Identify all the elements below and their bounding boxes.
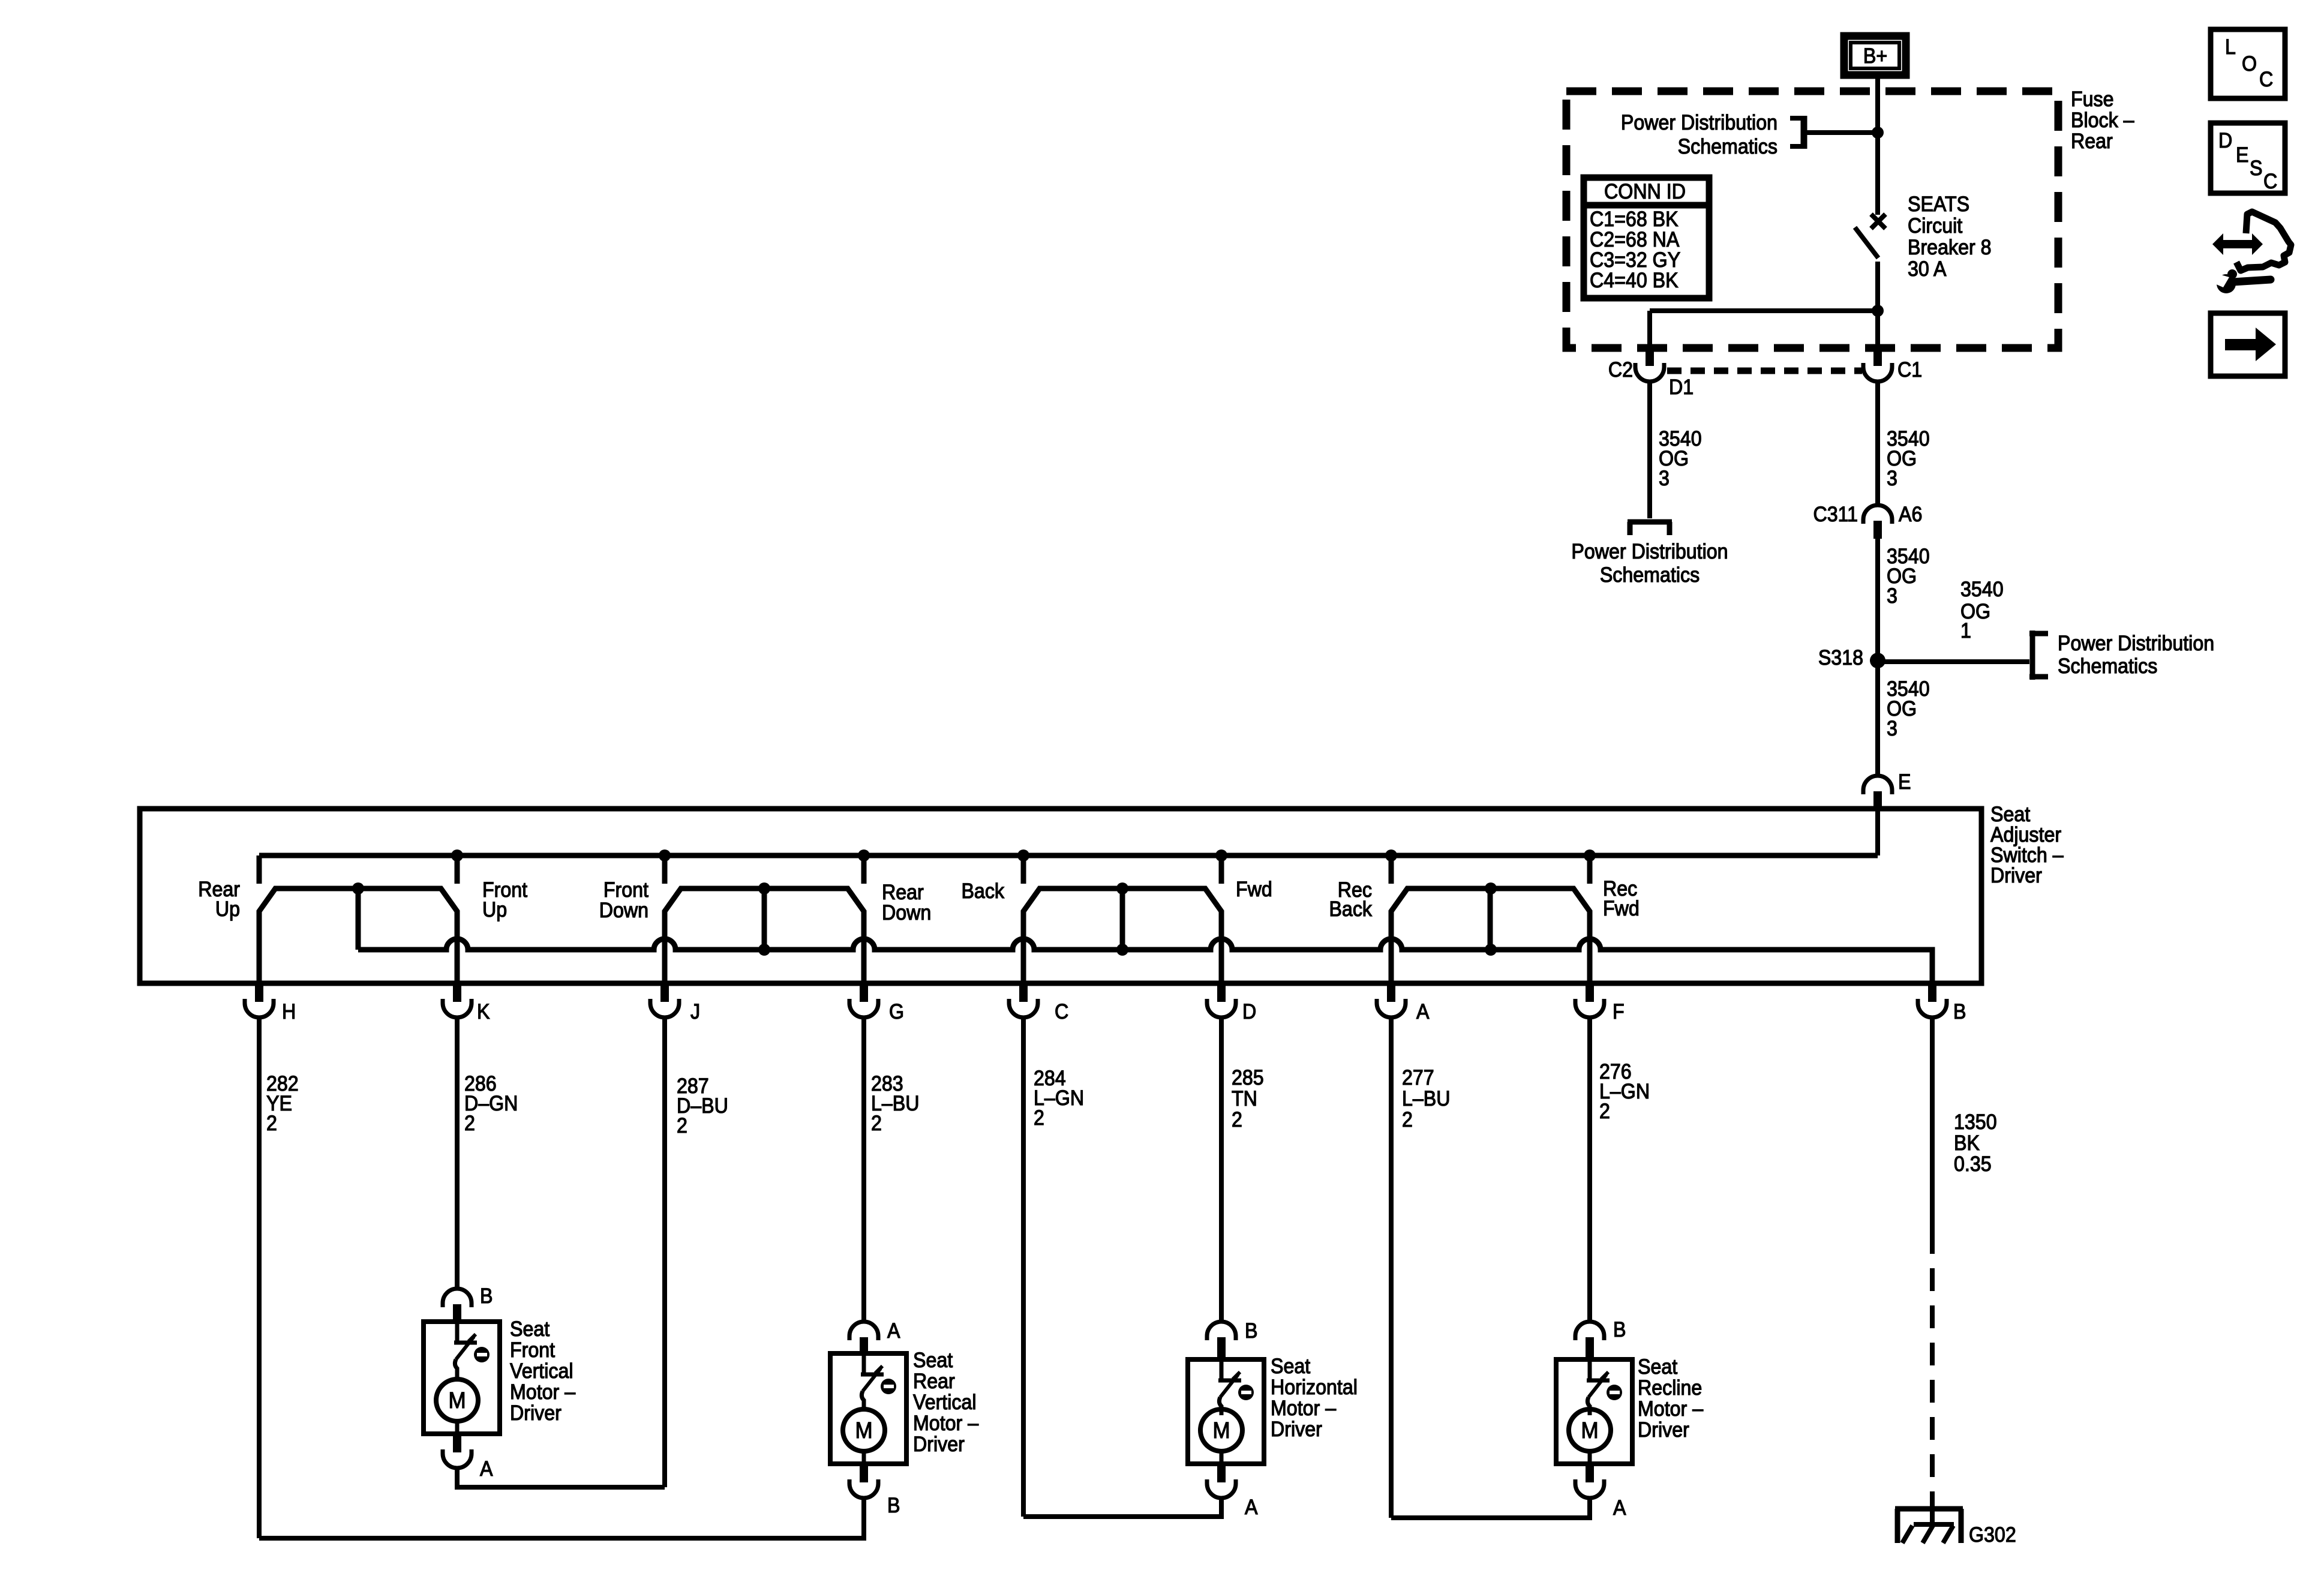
svg-text:2: 2 bbox=[1599, 1100, 1610, 1124]
svg-text:D: D bbox=[1242, 1001, 1256, 1024]
svg-text:Recline: Recline bbox=[1638, 1377, 1702, 1400]
switch S1 Seat Adjuster Switch - Driver enclosure bbox=[140, 809, 1981, 983]
common return line to pin B with wire hops bbox=[358, 939, 1932, 983]
label C1 bbox=[1897, 359, 1922, 382]
svg-text:1350: 1350 bbox=[1954, 1111, 1997, 1134]
label Rec Back bbox=[1329, 879, 1372, 921]
label pin A bbox=[1416, 1001, 1430, 1024]
svg-text:M: M bbox=[1581, 1418, 1598, 1443]
label Seat Recline Motor - Driver bbox=[1638, 1356, 1703, 1442]
svg-text:E: E bbox=[1898, 771, 1911, 794]
svg-text:3: 3 bbox=[1887, 467, 1897, 491]
junction node tap T2 top bbox=[758, 882, 770, 894]
svg-text:Power Distribution: Power Distribution bbox=[1571, 541, 1728, 564]
motor M2 connector pin B bbox=[849, 1464, 878, 1498]
connector C311 pin A6 bbox=[1863, 505, 1892, 539]
rocker contact front vertical (Rear Up / Front Up) bbox=[259, 888, 457, 983]
svg-text:Motor –: Motor – bbox=[1638, 1398, 1703, 1421]
svg-text:C1=68 BK: C1=68 BK bbox=[1590, 208, 1679, 232]
svg-text:G302: G302 bbox=[1969, 1524, 2016, 1547]
label pin K bbox=[477, 1001, 490, 1024]
svg-text:2: 2 bbox=[677, 1115, 687, 1138]
label Seat Adjuster Switch - Driver bbox=[1990, 803, 2064, 888]
svg-text:C4=40 BK: C4=40 BK bbox=[1590, 269, 1679, 293]
label pin C bbox=[1055, 1001, 1068, 1024]
svg-text:C2=68 NA: C2=68 NA bbox=[1590, 229, 1680, 252]
reference Power Distribution Schematics (right of S318) bbox=[2058, 632, 2214, 679]
motor M1 Seat Front Vertical Motor - Driver connector pin B bbox=[443, 1289, 472, 1324]
label S318 bbox=[1818, 647, 1863, 670]
circuit breaker contact and blade bbox=[1855, 214, 1885, 258]
wire J 287 D-BU 2 bbox=[662, 1017, 667, 1487]
svg-text:Back: Back bbox=[1329, 898, 1372, 921]
wire G 283 L-BU 2 bbox=[861, 1017, 866, 1322]
label pin H bbox=[282, 1001, 296, 1024]
rocker contact horizontal (Back / Fwd) bbox=[1023, 888, 1221, 983]
svg-text:Power Distribution: Power Distribution bbox=[1621, 112, 1777, 135]
label Seat Horizontal Motor - Driver bbox=[1271, 1355, 1358, 1442]
svg-text:Motor –: Motor – bbox=[913, 1412, 978, 1436]
wire D 285 TN 2 bbox=[1219, 1017, 1224, 1322]
contact stub Front Down (J) bbox=[662, 855, 668, 884]
wire A 277 L-BU 2 bbox=[1389, 1017, 1394, 1518]
svg-text:1: 1 bbox=[1960, 620, 1971, 643]
svg-text:Vertical: Vertical bbox=[510, 1360, 574, 1383]
wire S318 down to E 3540 OG 3 bbox=[1875, 661, 1880, 775]
wire C 284 L-GN 2 bbox=[1021, 1017, 1026, 1517]
icon forward arrow box bbox=[2211, 313, 2285, 376]
svg-text:D1: D1 bbox=[1669, 376, 1694, 400]
svg-text:C2: C2 bbox=[1608, 359, 1633, 382]
wire S318 branch right 3540 OG 1 bbox=[1878, 659, 2029, 664]
svg-text:Schematics: Schematics bbox=[2058, 655, 2157, 679]
svg-text:J: J bbox=[690, 1001, 700, 1024]
contact stub Rec Fwd (F) bbox=[1587, 855, 1593, 884]
wire label 284 L-GN 2 bbox=[1034, 1067, 1084, 1130]
svg-text:S: S bbox=[2250, 157, 2262, 181]
svg-text:3: 3 bbox=[1659, 467, 1670, 491]
junction node on bus at A bbox=[1385, 849, 1397, 861]
svg-text:TN: TN bbox=[1232, 1088, 1257, 1111]
svg-text:A6: A6 bbox=[1899, 503, 1922, 527]
wire label 1350 BK 0.35 bbox=[1954, 1111, 1997, 1176]
svg-text:F: F bbox=[1613, 1001, 1625, 1024]
junction node on bus at J bbox=[659, 849, 671, 861]
svg-text:Driver: Driver bbox=[913, 1433, 965, 1457]
svg-text:H: H bbox=[282, 1001, 296, 1024]
svg-text:Circuit: Circuit bbox=[1908, 215, 1963, 238]
svg-text:Down: Down bbox=[599, 899, 648, 923]
junction node on bus at G bbox=[858, 849, 870, 861]
motor M2 Seat Rear Vertical Motor - Driver connector pin A bbox=[849, 1322, 878, 1356]
label Seat Front Vertical Motor - Driver bbox=[510, 1318, 575, 1425]
svg-text:B+: B+ bbox=[1863, 45, 1887, 68]
label Front Up bbox=[482, 879, 528, 922]
wire E into feed bus bbox=[1875, 811, 1880, 855]
svg-text:2: 2 bbox=[1232, 1109, 1242, 1132]
junction node on bus at C bbox=[1017, 849, 1029, 861]
svg-text:C1: C1 bbox=[1897, 359, 1922, 382]
svg-text:Driver: Driver bbox=[1271, 1418, 1322, 1442]
wire M2 pin B to H bbox=[259, 1497, 864, 1538]
off-page connector to Power Distribution Schematics (bottom) bbox=[1628, 522, 1672, 535]
svg-text:BK: BK bbox=[1954, 1132, 1980, 1155]
rocker contact recline (Rec Back / Rec Fwd) bbox=[1391, 888, 1590, 983]
junction node tap T3 top bbox=[1116, 882, 1128, 894]
wire label 3540 OG 1 bbox=[1960, 578, 2004, 643]
wire bracket to B+ feed bbox=[1807, 130, 1878, 135]
label C2 bbox=[1608, 359, 1633, 382]
svg-text:Fwd: Fwd bbox=[1236, 878, 1272, 902]
svg-text:2: 2 bbox=[266, 1112, 277, 1136]
svg-text:Rear: Rear bbox=[2071, 130, 2113, 154]
svg-text:C311: C311 bbox=[1813, 503, 1858, 527]
label pin B of M4 bbox=[1613, 1319, 1626, 1342]
wire label 276 L-GN 2 bbox=[1599, 1061, 1650, 1124]
svg-text:Seat: Seat bbox=[1638, 1356, 1678, 1379]
junction node tap T1 bbox=[352, 882, 364, 894]
connector pin H of seat adjuster switch bbox=[245, 984, 274, 1017]
wire F 276 L-GN 2 bbox=[1587, 1017, 1592, 1322]
svg-text:Motor –: Motor – bbox=[1271, 1397, 1336, 1421]
wire C311 to S318 bbox=[1875, 539, 1880, 661]
svg-text:B: B bbox=[887, 1494, 900, 1518]
label pin J bbox=[690, 1001, 700, 1024]
svg-text:2: 2 bbox=[1402, 1109, 1413, 1132]
svg-text:2: 2 bbox=[464, 1112, 475, 1136]
motor M2 Seat Rear Vertical Motor - Driver bbox=[830, 1353, 906, 1464]
junction node on bus at K bbox=[451, 849, 463, 861]
svg-text:B: B bbox=[1613, 1319, 1626, 1342]
label pin D bbox=[1242, 1001, 1256, 1024]
bracket to Power Distribution Schematics (right) bbox=[2029, 631, 2048, 680]
connector pin B of seat adjuster switch bbox=[1918, 984, 1947, 1017]
junction node tap T4 top bbox=[1485, 882, 1497, 894]
svg-text:A: A bbox=[480, 1458, 493, 1481]
wire label 286 D-GN 2 bbox=[464, 1073, 518, 1136]
svg-text:B: B bbox=[1245, 1320, 1257, 1343]
junction node on B+ feed bbox=[1872, 127, 1884, 139]
wire H 282 YE 2 bbox=[257, 1017, 262, 1538]
wire label 277 L-BU 2 bbox=[1402, 1067, 1451, 1132]
wire M3 pin A to C bbox=[1023, 1497, 1221, 1517]
label Fwd bbox=[1236, 878, 1272, 902]
svg-text:SEATS: SEATS bbox=[1908, 193, 1969, 217]
connector pin J of seat adjuster switch bbox=[650, 984, 679, 1017]
CONN ID table bbox=[1584, 178, 1709, 298]
fuse block - rear dashed enclosure bbox=[1566, 91, 2058, 348]
label Back bbox=[961, 880, 1004, 903]
svg-text:Motor –: Motor – bbox=[510, 1381, 575, 1404]
svg-text:S318: S318 bbox=[1818, 647, 1863, 670]
label pin A of M1 bbox=[480, 1458, 493, 1481]
reference Power Distribution Schematics (below C2) bbox=[1571, 541, 1728, 587]
svg-text:Adjuster: Adjuster bbox=[1990, 824, 2061, 847]
junction node below breaker bbox=[1872, 305, 1884, 317]
label pin A of M4 bbox=[1613, 1497, 1626, 1520]
wire label 3540 OG 3 (C2 drop) bbox=[1659, 428, 1702, 491]
label pin B bbox=[1953, 1001, 1966, 1024]
svg-text:Down: Down bbox=[882, 902, 931, 925]
contact stub Rear Up (H) bbox=[257, 855, 262, 884]
svg-text:C: C bbox=[2259, 68, 2273, 92]
motor M4 connector pin A bbox=[1575, 1464, 1604, 1498]
wire label 285 TN 2 bbox=[1232, 1067, 1264, 1132]
wire C1 down to C311 3540 OG 3 bbox=[1875, 381, 1880, 505]
wire label 282 YE 2 bbox=[266, 1073, 299, 1136]
svg-text:2: 2 bbox=[1034, 1107, 1044, 1130]
svg-text:CONN ID: CONN ID bbox=[1604, 181, 1686, 204]
svg-text:M: M bbox=[855, 1418, 872, 1443]
motor M3 Seat Horizontal Motor - Driver connector pin B bbox=[1207, 1322, 1236, 1362]
bracket to Power Distribution Schematics (top) bbox=[1790, 116, 1804, 149]
svg-text:B: B bbox=[1953, 1001, 1966, 1024]
svg-text:Front: Front bbox=[603, 879, 649, 902]
wire label 3540 OG 3 (S318 to E) bbox=[1887, 678, 1930, 741]
svg-text:A: A bbox=[1416, 1001, 1430, 1024]
connector pin C of seat adjuster switch bbox=[1009, 984, 1038, 1017]
svg-text:277: 277 bbox=[1402, 1067, 1434, 1090]
svg-text:Up: Up bbox=[482, 899, 507, 922]
contact stub Rear Down (G) bbox=[861, 855, 867, 884]
svg-text:Rear: Rear bbox=[882, 881, 924, 905]
junction node on bus at D bbox=[1215, 849, 1227, 861]
svg-text:M: M bbox=[448, 1388, 466, 1413]
contact stub Front Up (K) bbox=[455, 855, 460, 884]
reference Power Distribution Schematics (top) bbox=[1621, 112, 1777, 159]
svg-text:Seat: Seat bbox=[913, 1349, 953, 1373]
junction node on bus at F bbox=[1584, 849, 1596, 861]
label pin G bbox=[889, 1001, 904, 1024]
svg-text:C: C bbox=[1055, 1001, 1068, 1024]
wire B 1350 BK 0.35 solid part bbox=[1930, 1017, 1935, 1231]
svg-text:Rear: Rear bbox=[913, 1370, 955, 1394]
label SEATS Circuit Breaker 8 30 A bbox=[1908, 193, 1992, 281]
svg-text:3540: 3540 bbox=[1960, 578, 2004, 602]
label Seat Rear Vertical Motor - Driver bbox=[913, 1349, 978, 1457]
svg-text:C3=32 GY: C3=32 GY bbox=[1590, 249, 1680, 272]
label C311 bbox=[1813, 503, 1858, 527]
wire junction to C2 drop bbox=[1650, 311, 1878, 349]
motor M4 Seat Recline Motor - Driver connector pin B bbox=[1575, 1322, 1604, 1362]
power symbol B+ battery feed box bbox=[1844, 36, 1906, 75]
svg-text:G: G bbox=[889, 1001, 904, 1024]
dashed connector boundary between C2 and C1 bbox=[1667, 368, 1862, 374]
wire label 283 L-BU 2 bbox=[871, 1073, 920, 1136]
svg-text:Fuse: Fuse bbox=[2071, 88, 2114, 112]
label Rear Down bbox=[882, 881, 931, 925]
motor M3 connector pin A bbox=[1207, 1464, 1236, 1498]
label G302 bbox=[1969, 1524, 2016, 1547]
connector pin D of seat adjuster switch bbox=[1207, 984, 1236, 1017]
junction node tap T3 bottom bbox=[1116, 944, 1128, 956]
svg-text:Switch –: Switch – bbox=[1990, 844, 2064, 867]
wire K 286 D-GN 2 bbox=[455, 1017, 460, 1289]
svg-text:E: E bbox=[2236, 144, 2248, 167]
svg-text:Schematics: Schematics bbox=[1600, 564, 1700, 587]
svg-text:K: K bbox=[477, 1001, 490, 1024]
icon DESC box bbox=[2211, 123, 2285, 193]
label Rec Fwd bbox=[1603, 878, 1640, 921]
connector E of seat adjuster switch bbox=[1863, 776, 1892, 809]
wire M4 pin A to A column bbox=[1391, 1497, 1590, 1518]
motor M4 Seat Recline Motor - Driver bbox=[1556, 1359, 1632, 1464]
svg-text:2: 2 bbox=[871, 1112, 882, 1136]
svg-text:A: A bbox=[1613, 1497, 1626, 1520]
label Front Down bbox=[599, 879, 649, 923]
svg-text:285: 285 bbox=[1232, 1067, 1264, 1090]
rocker contact rear vertical (Front Down / Rear Down) bbox=[665, 888, 864, 983]
svg-text:Vertical: Vertical bbox=[913, 1391, 977, 1415]
svg-text:Up: Up bbox=[215, 898, 240, 921]
svg-text:Seat: Seat bbox=[1271, 1355, 1311, 1379]
contact stub Back (C) bbox=[1021, 855, 1026, 884]
svg-text:0.35: 0.35 bbox=[1954, 1153, 1992, 1176]
junction node tap T2 bottom bbox=[758, 944, 770, 956]
svg-text:Schematics: Schematics bbox=[1678, 136, 1777, 159]
svg-text:Seat: Seat bbox=[510, 1318, 550, 1341]
label pin B of M2 bbox=[887, 1494, 900, 1518]
motor M1 Seat Front Vertical Motor - Driver bbox=[424, 1322, 500, 1434]
svg-text:D: D bbox=[2218, 130, 2232, 153]
svg-text:O: O bbox=[2242, 53, 2257, 76]
svg-text:Driver: Driver bbox=[510, 1402, 562, 1425]
svg-text:Block –: Block – bbox=[2071, 109, 2134, 133]
motor M1 connector pin A bbox=[443, 1434, 472, 1468]
label pin F bbox=[1613, 1001, 1625, 1024]
splice S318 bbox=[1870, 653, 1885, 668]
svg-text:C: C bbox=[2263, 170, 2277, 194]
label pin B of M1 bbox=[480, 1285, 493, 1308]
connector pin A of seat adjuster switch bbox=[1377, 984, 1406, 1017]
svg-text:L–BU: L–BU bbox=[1402, 1088, 1451, 1111]
label A6 bbox=[1899, 503, 1922, 527]
svg-text:3: 3 bbox=[1887, 718, 1897, 741]
wire label 3540 OG 3 (C1 drop) bbox=[1887, 428, 1930, 491]
connector C1 pin bbox=[1863, 349, 1892, 382]
ground G302 bbox=[1895, 1503, 1963, 1543]
svg-text:Driver: Driver bbox=[1990, 864, 2042, 888]
wire label 287 D-BU 2 bbox=[677, 1075, 728, 1138]
label pin B of M3 bbox=[1245, 1320, 1257, 1343]
connector pin F of seat adjuster switch bbox=[1575, 984, 1604, 1017]
motor M3 Seat Horizontal Motor - Driver bbox=[1188, 1359, 1264, 1464]
label D1 bbox=[1669, 376, 1694, 400]
svg-text:Power Distribution: Power Distribution bbox=[2058, 632, 2214, 656]
connector pin G of seat adjuster switch bbox=[849, 984, 878, 1017]
svg-text:A: A bbox=[887, 1320, 900, 1343]
svg-text:B: B bbox=[480, 1285, 493, 1308]
svg-text:A: A bbox=[1245, 1496, 1258, 1520]
svg-text:Fwd: Fwd bbox=[1603, 897, 1640, 921]
contact stub Rec Back (A) bbox=[1389, 855, 1394, 884]
svg-text:M: M bbox=[1212, 1418, 1230, 1443]
wire B dashed part to G302 bbox=[1930, 1231, 1935, 1507]
svg-text:L: L bbox=[2225, 36, 2236, 59]
wire C2 to power distribution 3540 OG 3 bbox=[1647, 381, 1652, 518]
wire M1 pin A to J bbox=[457, 1467, 665, 1487]
contact stub Fwd (D) bbox=[1219, 855, 1224, 884]
svg-text:Driver: Driver bbox=[1638, 1419, 1689, 1442]
svg-text:3: 3 bbox=[1887, 585, 1897, 608]
svg-text:30 A: 30 A bbox=[1908, 258, 1947, 281]
label E bbox=[1898, 771, 1911, 794]
connector pin K of seat adjuster switch bbox=[443, 984, 472, 1017]
wire breaker down to junction bbox=[1875, 262, 1880, 349]
svg-text:Horizontal: Horizontal bbox=[1271, 1376, 1358, 1400]
label pin A of M2 bbox=[887, 1320, 900, 1343]
label Rear Up bbox=[198, 878, 240, 921]
feed bus inside switch bbox=[259, 853, 1878, 858]
icon LOC box bbox=[2211, 29, 2285, 98]
svg-text:Front: Front bbox=[510, 1339, 556, 1362]
connector C2 pin D1 bbox=[1635, 349, 1664, 382]
wire label 3540 OG 3 (C311 to S318) bbox=[1887, 545, 1930, 608]
svg-text:Breaker 8: Breaker 8 bbox=[1908, 236, 1992, 260]
label pin A of M3 bbox=[1245, 1496, 1258, 1520]
svg-text:Seat: Seat bbox=[1990, 803, 2031, 827]
svg-text:Back: Back bbox=[961, 880, 1004, 903]
label Fuse Block - Rear bbox=[2071, 88, 2134, 154]
junction node tap T4 bottom bbox=[1485, 944, 1497, 956]
icon adjustable component (double arrow, part outline, wrench) bbox=[2209, 212, 2291, 293]
wire B+ down to breaker bbox=[1875, 75, 1880, 215]
